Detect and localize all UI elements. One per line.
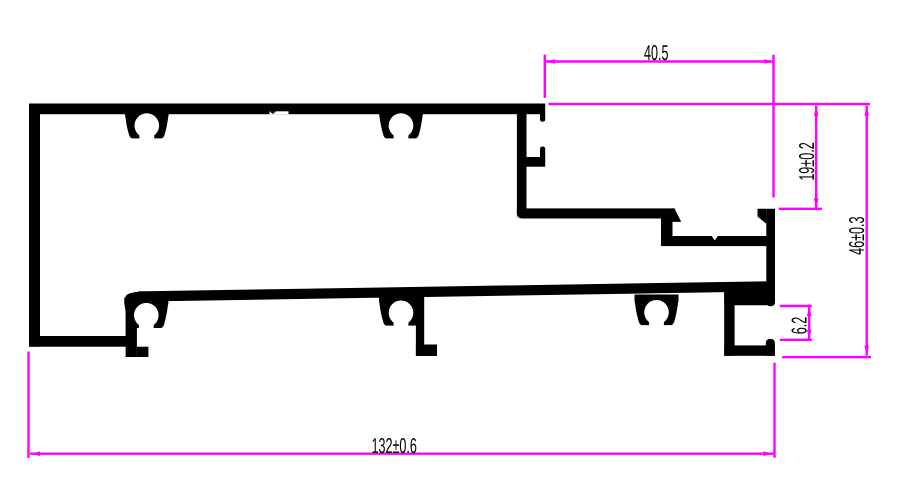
arrow 19 bottom: [814, 198, 819, 208]
right C upper arm: [724, 283, 774, 305]
step wall: [661, 219, 673, 237]
upper shelf: [517, 208, 675, 218]
ext line 132 left: [27, 352, 29, 459]
screw boss top 1: [125, 108, 169, 139]
arrow 46 bottom: [864, 346, 869, 356]
slanted bottom web: [138, 281, 766, 301]
svg-text:132±0.6: 132±0.6: [372, 434, 417, 458]
bottom flange left: [29, 336, 137, 347]
T-bar: [766, 209, 775, 306]
arrow 19 top: [814, 106, 819, 116]
ref line 6.2 bottom: [780, 339, 812, 341]
glazing shelf: [661, 236, 774, 246]
screw boss bottom 2: [379, 295, 423, 326]
gasket hook upper stub: [540, 114, 545, 122]
svg-text:19±0.2: 19±0.2: [795, 142, 819, 180]
T-bar lip: [758, 209, 767, 224]
dim line 6.2: [808, 306, 810, 340]
arrow 40.5 right: [764, 59, 774, 64]
left riser rounded corner: [126, 291, 143, 312]
middle foot: [416, 345, 437, 357]
right C bottom: [724, 345, 775, 355]
top reference line: [549, 103, 871, 105]
svg-text:46±0.3: 46±0.3: [845, 216, 869, 254]
dim line 132: [30, 453, 773, 455]
ref line 19 bottom: [779, 208, 822, 210]
arrow 46 top: [864, 106, 869, 116]
mid wall: [517, 114, 527, 219]
ref line 46 bottom: [782, 356, 871, 358]
arrow 132 left: [30, 451, 40, 456]
ext line 40.5 left: [544, 55, 546, 98]
arrow 40.5 left: [545, 59, 555, 64]
dim line 40.5: [545, 60, 775, 62]
left riser: [126, 300, 137, 357]
right C left wall: [724, 283, 734, 356]
dim line 46: [866, 106, 868, 356]
ext line 132 right: [773, 363, 775, 458]
dim line 19: [815, 106, 817, 209]
gasket hook lower stub: [540, 147, 545, 158]
svg-text:40.5: 40.5: [644, 41, 669, 65]
ext line 40.5 right: [772, 55, 774, 198]
ref line 6.2 top: [780, 305, 812, 307]
screw boss top 2: [379, 108, 423, 139]
notch on top flange: [270, 111, 289, 114]
right C stub: [766, 339, 775, 356]
arrow 6.2 bottom: [807, 330, 812, 340]
shelf chamfer lip: [671, 208, 681, 222]
gasket hook lower arm: [527, 157, 546, 167]
left foot lip: [137, 347, 149, 357]
wall-shelf corner fillet: [517, 213, 523, 219]
screw boss bottom 1: [124, 297, 168, 328]
left wall: [29, 104, 40, 347]
v-notch on glazing shelf: [712, 236, 718, 241]
arrow 132 right: [763, 451, 773, 456]
screw boss bottom 3: [635, 295, 679, 326]
svg-text:6.2: 6.2: [788, 317, 812, 334]
arrow 6.2 top: [807, 306, 812, 316]
middle leg: [416, 290, 424, 356]
top flange: [29, 104, 545, 115]
